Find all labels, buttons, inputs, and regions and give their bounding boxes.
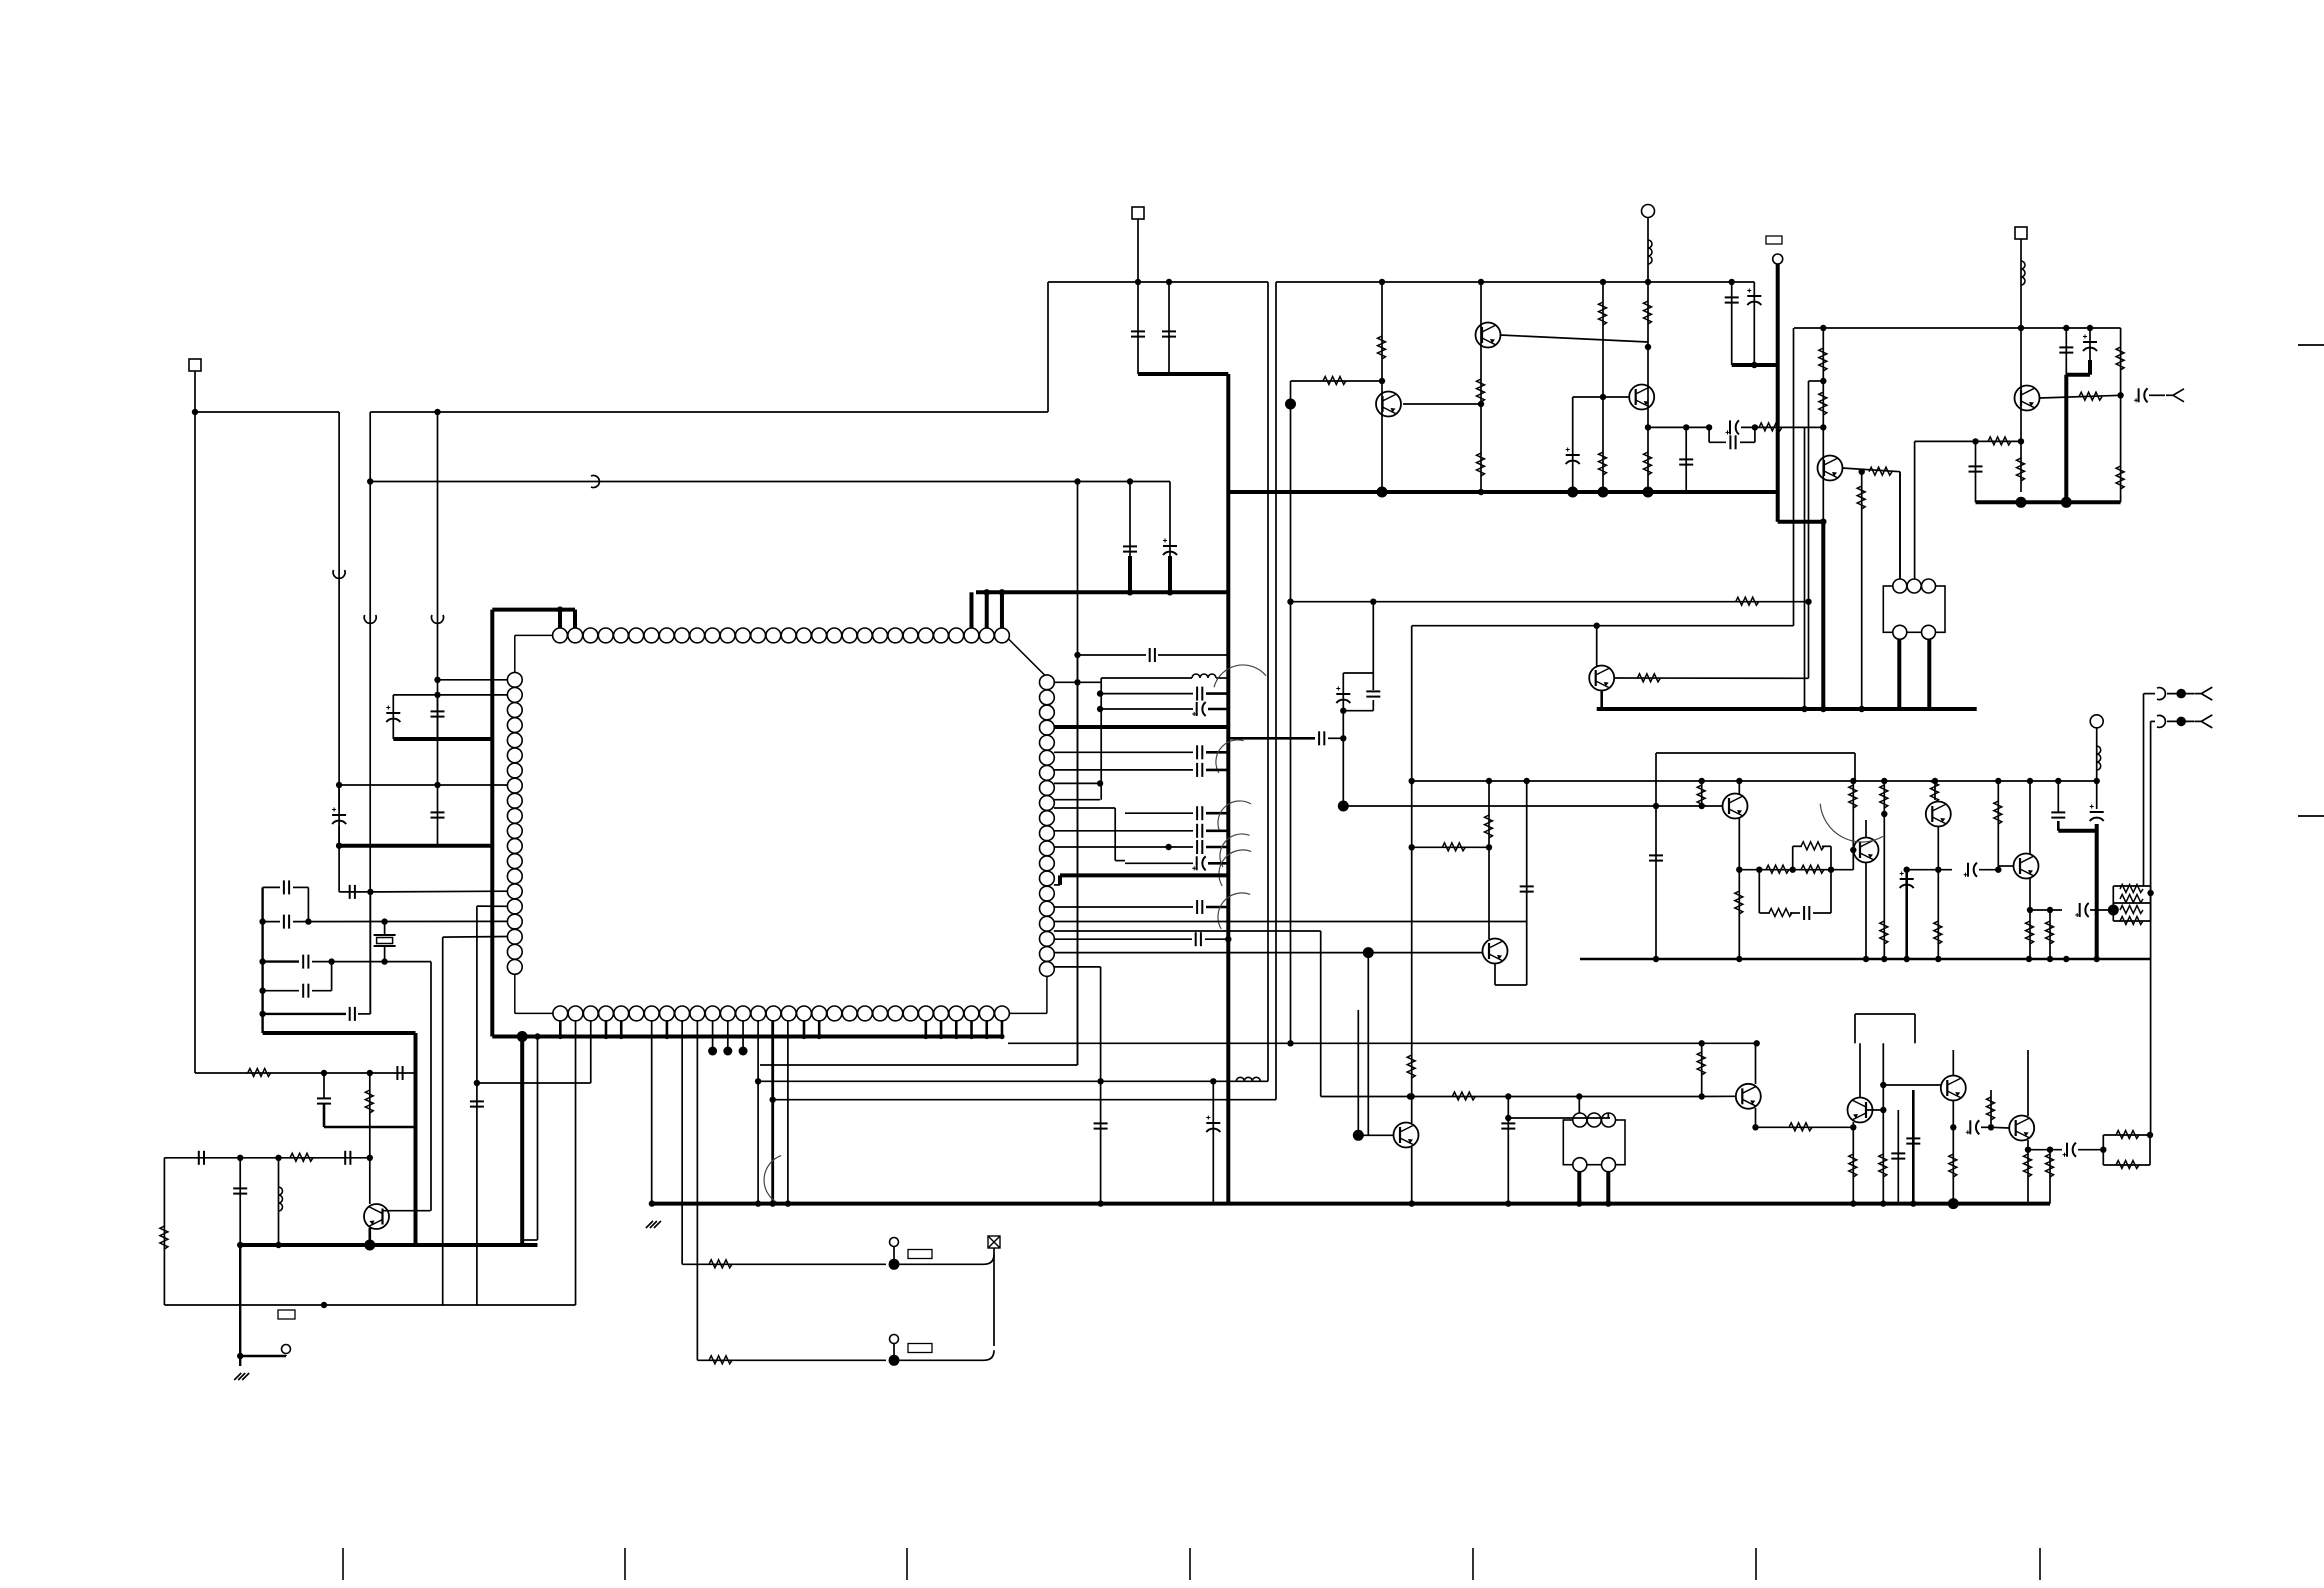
- row y1264: [682, 1263, 886, 1265]
- drop pin x652 (gnd): [651, 1020, 653, 1203]
- row y1118: [1508, 1117, 1610, 1119]
- junction: [969, 1034, 974, 1039]
- label box T2: [1766, 236, 1782, 244]
- IC pin: [949, 1006, 964, 1021]
- wire x1648 col: [1647, 282, 1649, 492]
- junction: [1699, 1040, 1705, 1046]
- out row 1: [2144, 693, 2156, 695]
- row y752 b: [1206, 751, 1228, 754]
- resistor loop top: [1801, 842, 1824, 850]
- junction: [1505, 1200, 1511, 1206]
- wire hop: [364, 615, 376, 623]
- wire bus y282 left part: [1048, 281, 1268, 283]
- row y655: [1078, 654, 1147, 656]
- junction: [1910, 1200, 1916, 1206]
- Q8 collector stub: [1738, 781, 1740, 794]
- junction: [558, 1034, 563, 1039]
- col x2050: [2049, 910, 2051, 959]
- resistor loop3 a: [2116, 1131, 2139, 1139]
- resistor Q16 b: [2046, 1154, 2054, 1177]
- capacitor x1100: [1094, 1123, 1108, 1128]
- junction: [1820, 424, 1826, 430]
- resistor x1481 lower: [1477, 453, 1485, 476]
- junction: [1135, 279, 1141, 285]
- thick bus IC bottom: [492, 1035, 1002, 1039]
- junction: [984, 1034, 989, 1039]
- row y1149 b: [2078, 1149, 2103, 1151]
- wire hop: [2157, 688, 2165, 700]
- junction: [1074, 478, 1080, 484]
- junction: [954, 1034, 959, 1039]
- IC pin: [507, 672, 522, 687]
- IC pin: [964, 628, 979, 643]
- IC pin: [735, 628, 750, 643]
- junction: [2047, 1147, 2053, 1153]
- drop x537: [537, 1037, 539, 1241]
- thick stub x2090: [2088, 360, 2092, 375]
- row y1043: [1008, 1042, 1757, 1044]
- IC pin: [583, 628, 598, 643]
- IC pin: [583, 1006, 598, 1021]
- row y887 b: [293, 886, 308, 888]
- transistor Q6: [364, 1204, 389, 1229]
- capacitor x2058: [2051, 812, 2065, 817]
- wire x1793 col: [1793, 328, 1795, 626]
- shield arc y678: [1214, 665, 1266, 687]
- node Q17 base: [1353, 1130, 1364, 1141]
- col x1701 low: [1701, 1043, 1703, 1096]
- junction: [1097, 690, 1103, 696]
- wire x1808 col: [1808, 381, 1810, 602]
- wire loop stub L: [1708, 427, 1710, 442]
- inductor y678: [1192, 674, 1216, 678]
- IC pin: [736, 1006, 751, 1021]
- Q14 collector col: [1859, 1043, 1861, 1098]
- row pin L1: [438, 679, 508, 681]
- junction: [367, 1155, 373, 1161]
- stub CN1-1: [893, 1246, 895, 1264]
- resistor x1823 mid: [1819, 392, 1827, 415]
- wire x1100 down: [1100, 967, 1102, 1204]
- junction: [2018, 438, 2024, 444]
- thick wire y365: [1732, 363, 1778, 367]
- capacitor y921: [284, 915, 289, 929]
- resistor y1157: [290, 1153, 313, 1161]
- junction: [1524, 778, 1530, 784]
- thick wire x1777: [1776, 264, 1780, 522]
- row y990 b: [312, 990, 332, 992]
- CF2 pin down 1: [1577, 1171, 1581, 1204]
- wire x476 down: [476, 906, 478, 1305]
- junction: [1379, 279, 1385, 285]
- wire Q2 out row: [1500, 335, 1648, 342]
- row y1083: [476, 1082, 590, 1084]
- junction: [1645, 344, 1651, 350]
- pcap col x393: [392, 695, 394, 739]
- wire x1358 down: [1357, 1010, 1359, 1135]
- drop pin x697: [696, 1020, 698, 1360]
- wire x1411 tall: [1411, 626, 1413, 1123]
- row y847: [1054, 846, 1193, 848]
- thick col x324: [323, 1104, 326, 1127]
- IC pin: [507, 748, 522, 763]
- stub x308: [307, 887, 309, 921]
- IC pin: [812, 1006, 827, 1021]
- row y769: [1054, 769, 1193, 771]
- inductor y1081: [1236, 1077, 1260, 1081]
- ceramic filter CF1: [1883, 586, 1945, 632]
- junction: [1950, 1124, 1956, 1130]
- thick drop x522: [520, 1037, 524, 1246]
- wire J2 down: [1137, 219, 1139, 282]
- loop3 right: [2149, 1135, 2151, 1165]
- top pin stub: [969, 592, 973, 628]
- row y655 b: [1158, 654, 1228, 656]
- row y869: [1739, 869, 1853, 871]
- junction: [664, 1034, 669, 1039]
- row y1096: [1321, 1096, 1702, 1098]
- junction: [434, 677, 440, 683]
- wire x2021 col: [2020, 328, 2022, 492]
- wire Q1 base row: [1403, 403, 1481, 405]
- junction: [1097, 780, 1103, 786]
- wire x1320 down: [1320, 931, 1322, 1097]
- junction: [259, 988, 265, 994]
- terminal T2: [1773, 254, 1783, 264]
- col x1853 low: [1852, 1122, 1854, 1204]
- junction: [755, 1200, 761, 1206]
- wire row y412 left: [195, 411, 339, 413]
- resistor x1603 upper: [1599, 302, 1607, 325]
- resistor row427: [1759, 423, 1782, 431]
- rail y781: [1412, 780, 2097, 782]
- capacitor x1508: [1501, 1123, 1515, 1128]
- row y693: [1100, 693, 1193, 695]
- resistor row y441: [1988, 437, 2011, 445]
- row y1127: [1756, 1126, 1854, 1128]
- resistor x1481 upper: [1477, 379, 1485, 402]
- junction: [2117, 392, 2123, 398]
- IC pin: [934, 628, 949, 643]
- Q16 collector col: [2027, 1050, 2029, 1116]
- wire x994: [993, 1254, 995, 1346]
- junction (node): [1643, 487, 1654, 498]
- loop3 top: [2103, 1134, 2150, 1136]
- bottom pin stub: [803, 1020, 806, 1036]
- IC pin: [903, 628, 918, 643]
- IC pin: [690, 1006, 705, 1021]
- junction: [1756, 867, 1762, 873]
- junction: [1340, 708, 1346, 714]
- capacitor x437 low: [431, 812, 445, 817]
- junction: [1850, 778, 1856, 784]
- resistor x1603 lower: [1599, 452, 1607, 475]
- resistor loop1 a: [2120, 885, 2143, 893]
- wire x1077 down: [1077, 482, 1079, 1066]
- IC top border: [560, 634, 1002, 636]
- solder dot: [708, 1047, 717, 1056]
- junction: [1576, 1200, 1582, 1206]
- resistor x1648 upper: [1644, 301, 1652, 324]
- IC pin: [1040, 720, 1055, 735]
- transistor Q5: [2015, 386, 2040, 411]
- col x1508: [1507, 1097, 1509, 1204]
- junction: [434, 782, 440, 788]
- inductor L3: [2097, 746, 2101, 770]
- top pin stub: [985, 592, 989, 628]
- wire x1048: [1047, 282, 1049, 412]
- row pin L18: [443, 936, 508, 939]
- junction: [1859, 469, 1865, 475]
- IC pin: [1040, 735, 1055, 750]
- junction: [1505, 1093, 1511, 1099]
- wire J3 down: [2020, 239, 2022, 328]
- transistor Q17: [1394, 1123, 1419, 1148]
- IC pin: [675, 628, 690, 643]
- inductor x278: [279, 1187, 283, 1211]
- wire bus y282 right part: [1276, 281, 1754, 283]
- IC pin: [766, 1006, 781, 1021]
- IC pin: [766, 628, 781, 643]
- polarized capacitor x2096: [2090, 812, 2104, 821]
- wire to T3: [240, 1355, 286, 1357]
- left bus x262: [261, 887, 263, 1033]
- IC pin: [1040, 886, 1055, 901]
- stub CN1-2: [893, 1343, 895, 1360]
- bottom pin stub: [970, 1020, 973, 1036]
- IC pin: [995, 1006, 1010, 1021]
- col x1656: [1655, 753, 1657, 959]
- IC pin: [675, 1006, 690, 1021]
- polarized capacitor y1149: [2067, 1143, 2076, 1157]
- row y907 b: [1206, 906, 1228, 909]
- crystal stub bottom: [384, 946, 386, 962]
- CF1 pin up 1 (drawn): [1899, 472, 1901, 579]
- IC pin: [949, 628, 964, 643]
- junction: [1486, 844, 1492, 850]
- junction: [2147, 1132, 2153, 1138]
- resistor col x1853: [1849, 785, 1857, 808]
- thick wire y739: [393, 737, 492, 741]
- row y863 b: [1208, 862, 1228, 865]
- drop x788: [787, 1020, 789, 1203]
- thick wire y845: [339, 844, 492, 848]
- IC pin: [858, 1006, 873, 1021]
- crop tick: [1189, 1548, 1191, 1580]
- transistor Q11: [2014, 854, 2039, 879]
- row y813 b: [1206, 812, 1228, 815]
- junction: [1683, 424, 1689, 430]
- Qf collector: [1596, 626, 1598, 666]
- resistor Q5 base: [2079, 392, 2102, 400]
- row y1081: [758, 1080, 1268, 1082]
- wire x2152 up: [2150, 721, 2152, 893]
- wire cap col x1731: [1731, 282, 1733, 365]
- bottom pin stub: [605, 1020, 608, 1036]
- wire x2120 col: [2120, 328, 2122, 502]
- IC pin: [1040, 690, 1055, 705]
- IC pin: [979, 628, 994, 643]
- IC pin: [614, 1006, 629, 1021]
- jog x537-522: [522, 1239, 537, 1241]
- jog x1115: [1114, 808, 1116, 861]
- IC pin: [1040, 781, 1055, 796]
- thick wire y521: [1778, 520, 1824, 524]
- junction: [1478, 279, 1484, 285]
- capacitor y813: [1197, 806, 1202, 820]
- resistor loop3 b: [2116, 1161, 2139, 1169]
- wire x2150 tall: [2150, 893, 2152, 1135]
- wire x1170 down: [1169, 482, 1171, 593]
- junction: [1407, 1093, 1413, 1099]
- CF1 pin down 1: [1897, 639, 1901, 709]
- junction: [1754, 1040, 1760, 1046]
- junction: [603, 1034, 608, 1039]
- wire y381 stub: [1809, 380, 1824, 382]
- row y990 a: [263, 990, 299, 992]
- row y907: [1054, 906, 1193, 908]
- wire row y481: [370, 481, 1170, 483]
- junction (node): [1598, 487, 1609, 498]
- junction: [321, 1070, 327, 1076]
- pin1 stub up: [558, 610, 562, 628]
- loop top a: [1793, 845, 1802, 847]
- col x1701: [1701, 781, 1703, 807]
- resistor row1073: [248, 1069, 271, 1077]
- junction: [557, 606, 563, 612]
- IC pin: [995, 628, 1010, 643]
- row pin L16: [477, 905, 508, 907]
- row y830: [1054, 830, 1193, 832]
- terminal T1: [1642, 205, 1655, 218]
- capacitor x1656: [1649, 855, 1663, 860]
- junction: [1729, 279, 1735, 285]
- CF2 pin down 2: [1606, 1171, 1610, 1204]
- IC pin: [888, 1006, 903, 1021]
- capacitor x2066: [2059, 347, 2073, 352]
- IC pin: [507, 839, 522, 854]
- wire row y427 a: [1648, 426, 1710, 428]
- junction: [1576, 1093, 1582, 1099]
- junction: [1653, 803, 1659, 809]
- ground: [646, 1221, 661, 1228]
- resistor loop2: [1769, 909, 1792, 917]
- drop x758: [757, 1020, 759, 1203]
- IC pin: [842, 628, 857, 643]
- junction: [1127, 478, 1133, 484]
- capacitor y738: [1319, 731, 1324, 745]
- thick row y1127: [324, 1126, 416, 1129]
- junction: [1699, 1093, 1705, 1099]
- row y709: [1100, 708, 1193, 710]
- polarized capacitor row427: [1730, 420, 1739, 434]
- wire loop bottom R: [1740, 441, 1755, 443]
- IC pin: [781, 628, 796, 643]
- junction: [1605, 1200, 1611, 1206]
- IC pin: [629, 1006, 644, 1021]
- junction: [434, 409, 440, 415]
- Q15 collector: [1952, 1050, 1954, 1076]
- row y1157: [164, 1157, 369, 1159]
- capacitor y990: [303, 984, 308, 998]
- junction: [1478, 489, 1484, 495]
- junction: [2100, 1147, 2106, 1153]
- junction: [367, 889, 373, 895]
- junction: [1699, 803, 1705, 809]
- loop1 top: [2113, 885, 2150, 887]
- junction: [1880, 1200, 1886, 1206]
- col x1884: [1883, 781, 1885, 959]
- wire x431 down: [430, 962, 432, 1211]
- resistor row1360: [709, 1356, 732, 1364]
- wire x1130 down: [1129, 482, 1131, 593]
- row y678: [1101, 677, 1192, 679]
- IC pin: [507, 703, 522, 718]
- junction (node): [517, 1031, 528, 1042]
- row y1305: [164, 1304, 575, 1306]
- junction: [2027, 778, 2033, 784]
- shield arc bottom: [764, 1156, 781, 1203]
- resistor x1853 low: [1849, 1154, 1857, 1177]
- wire x1914 down to filter: [1914, 441, 1916, 586]
- wire x1276 down: [1275, 282, 1277, 1100]
- row y738 b: [1328, 737, 1343, 739]
- row y961 b: [312, 961, 431, 963]
- IC pin: [599, 1006, 614, 1021]
- capacitor y769: [1197, 763, 1202, 777]
- thick bus y592: [976, 590, 1228, 594]
- junction: [770, 1200, 776, 1206]
- row pin R1: [1054, 681, 1101, 683]
- resistor row601: [1736, 597, 1759, 605]
- IC pin: [507, 733, 522, 748]
- IC pin: [1040, 901, 1055, 916]
- col x2050 low: [2049, 1150, 2051, 1204]
- cap col x324: [323, 1073, 325, 1098]
- IC pin: [507, 854, 522, 869]
- row pin L15: [370, 890, 507, 893]
- junction: [534, 1033, 540, 1039]
- IC left-bottom border: [514, 967, 516, 1014]
- row y1013 a: [263, 1013, 346, 1015]
- wire to arrow: [2149, 394, 2165, 396]
- row y1149: [2028, 1149, 2062, 1151]
- col x1853: [1852, 781, 1854, 870]
- polarized capacitor y910: [2080, 903, 2089, 917]
- connector arrow OUT3: [2194, 715, 2212, 728]
- IC pin: [1040, 750, 1055, 765]
- Q13 base: [1702, 1095, 1736, 1097]
- junction: [1097, 706, 1103, 712]
- junction: [923, 1034, 928, 1039]
- thick drop x415: [414, 1033, 418, 1245]
- junction: [1074, 679, 1080, 685]
- bottom pin stub: [985, 1020, 988, 1036]
- row y806: [1343, 805, 1722, 807]
- loop top b: [1822, 845, 1831, 847]
- IC bottom-left border: [515, 1012, 561, 1014]
- (merge): [1411, 781, 1413, 785]
- connector arrow OUT2: [2194, 687, 2212, 700]
- junction: [1751, 362, 1757, 368]
- wire loop bottom L: [1709, 441, 1726, 443]
- (x1077 already): [1077, 655, 1079, 1065]
- col x1883: [1882, 1043, 1884, 1203]
- wire row y441: [1915, 440, 2021, 442]
- solder dot: [739, 1047, 748, 1056]
- junction (node): [2061, 497, 2072, 508]
- wire x994 top: [993, 1248, 995, 1254]
